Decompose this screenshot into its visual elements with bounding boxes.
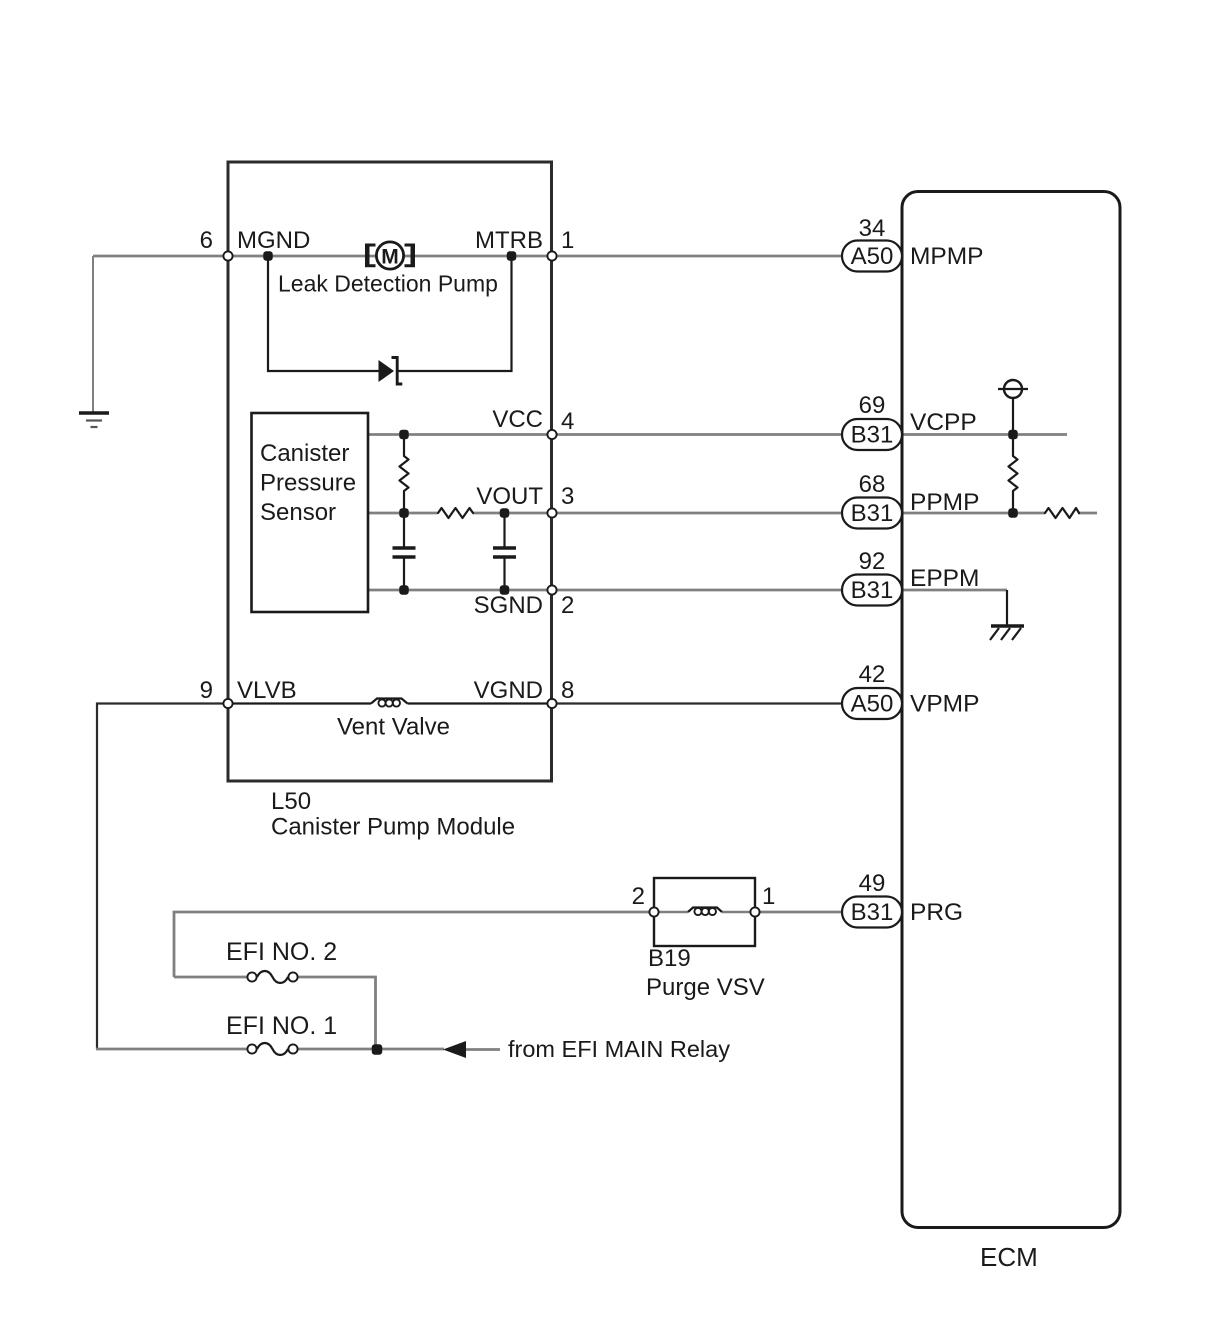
svg-text:92: 92 [859, 548, 886, 575]
connector B31 pin 92 oval [842, 575, 902, 606]
motor M (Leak Detection Pump) [365, 242, 415, 269]
svg-text:Canister: Canister [260, 440, 349, 467]
pin 9 VLVB [223, 699, 232, 708]
diode D (pump) triangle [379, 360, 395, 382]
resistor R (ECM pull-up vertical) [1009, 435, 1018, 514]
junction EFI NO.1/NO.2 [372, 1044, 383, 1055]
wire to EFI NO.1 fuse [96, 1048, 248, 1051]
junction VOUT/C2 [500, 508, 510, 518]
fuse EFI NO.2 [247, 971, 297, 983]
connector A50 pin 42 oval [842, 688, 902, 719]
svg-text:Sensor: Sensor [260, 499, 336, 526]
svg-text:8: 8 [561, 677, 574, 704]
svg-text:EFI NO. 2: EFI NO. 2 [226, 938, 337, 966]
svg-text:34: 34 [859, 215, 886, 242]
svg-text:1: 1 [762, 883, 775, 910]
wire EFI NO.2 branch to Purge VSV pin 2 [174, 912, 654, 977]
svg-text:EPPM: EPPM [910, 565, 979, 592]
junction SGND/C2 [500, 585, 510, 595]
wire VOUT to PPMP [368, 512, 1097, 515]
wire VGND to VPMP (dark) [552, 702, 902, 704]
chassis ground (EPPM) [990, 626, 1024, 640]
svg-text:VLVB: VLVB [237, 677, 297, 704]
svg-text:VCPP: VCPP [910, 409, 977, 436]
svg-text:M: M [381, 246, 399, 269]
module L50 box (Canister Pump Module) [228, 162, 552, 781]
svg-text:49: 49 [859, 870, 886, 897]
svg-text:MPMP: MPMP [910, 243, 984, 270]
svg-text:42: 42 [859, 661, 886, 688]
pin 2 purge VSV [649, 907, 658, 916]
svg-text:2: 2 [632, 883, 645, 910]
inductor L (purge VSV) [688, 908, 722, 916]
svg-text:69: 69 [859, 392, 886, 419]
wire vent valve internal [228, 702, 552, 704]
svg-text:Leak Detection Pump: Leak Detection Pump [278, 271, 498, 297]
junction PPMP/pull-up [1008, 508, 1018, 518]
svg-text:EFI NO. 1: EFI NO. 1 [226, 1012, 337, 1040]
junction SGND/C1 [399, 585, 409, 595]
svg-text:B31: B31 [851, 577, 894, 604]
resistor R (VOUT horizontal) [438, 508, 473, 518]
svg-text:VCC: VCC [492, 406, 543, 433]
wire EFI NO.1 fuse to arrow [297, 1048, 500, 1051]
svg-text:L50: L50 [271, 788, 311, 815]
svg-text:3: 3 [561, 483, 574, 510]
svg-text:2: 2 [561, 592, 574, 619]
pin 6 MGND [223, 251, 232, 260]
capacitor C1 (left) [393, 513, 416, 590]
inductor L (vent valve) [371, 699, 408, 707]
junction MGND [263, 251, 273, 261]
svg-text:B31: B31 [851, 899, 894, 926]
junction VCPP/pull-up [1008, 430, 1018, 440]
capacitor C2 (right) [493, 513, 516, 590]
junction VOUT/resistor [399, 508, 409, 518]
pin 3 VOUT [547, 508, 556, 517]
pin 2 SGND [547, 585, 556, 594]
junction VCC/resistor [399, 430, 409, 440]
svg-text:B31: B31 [851, 422, 894, 449]
svg-text:PPMP: PPMP [910, 489, 979, 516]
svg-text:MGND: MGND [237, 227, 310, 254]
arrow from EFI MAIN Relay [443, 1041, 466, 1058]
wire MGND-MTRB-A50 horizontal [93, 255, 902, 258]
connector B31 pin 69 oval [842, 419, 902, 450]
svg-text:A50: A50 [851, 691, 894, 718]
pull-up: theta terminal symbol [998, 380, 1028, 435]
svg-text:1: 1 [561, 227, 574, 254]
wire MGND left to ground drop [92, 256, 94, 412]
pin 1 purge VSV [750, 907, 759, 916]
wire Purge VSV internal [654, 911, 755, 913]
svg-text:VOUT: VOUT [476, 483, 543, 510]
connector A50 pin 34 oval [842, 241, 902, 272]
wire Purge VSV pin1 to B31 [755, 911, 902, 914]
pin 8 VGND [547, 699, 556, 708]
wire EPPM drop to chassis ground [1006, 590, 1008, 625]
svg-text:Pressure: Pressure [260, 470, 356, 497]
ECM box [902, 192, 1120, 1228]
purge VSV box B19 [654, 878, 755, 946]
svg-text:B31: B31 [851, 500, 894, 527]
svg-text:9: 9 [200, 677, 213, 704]
svg-text:MTRB: MTRB [475, 227, 543, 254]
pin 4 VCC [547, 430, 556, 439]
wire VLVB to left and down (dark) [97, 704, 228, 1050]
svg-text:ECM: ECM [980, 1242, 1038, 1272]
svg-text:Purge VSV: Purge VSV [646, 974, 765, 1001]
pin 1 MTRB [547, 251, 556, 260]
wire VCC to VCPP [368, 433, 1067, 436]
resistor R (sensor vertical) [400, 435, 409, 514]
svg-text:6: 6 [200, 227, 213, 254]
svg-text:SGND: SGND [474, 592, 543, 619]
svg-text:A50: A50 [851, 243, 894, 270]
connector B31 pin 49 oval [842, 897, 902, 928]
svg-text:Canister Pump Module: Canister Pump Module [271, 814, 515, 841]
svg-text:from EFI MAIN Relay: from EFI MAIN Relay [508, 1036, 730, 1062]
connector B31 pin 68 oval [842, 498, 902, 529]
wire EFI NO.2 fuse line [174, 977, 376, 1049]
diode D cathode curve [392, 358, 403, 385]
svg-text:PRG: PRG [910, 899, 963, 926]
resistor R (PPMP horizontal) [1045, 508, 1079, 518]
svg-text:B19: B19 [648, 945, 691, 972]
svg-text:Vent Valve: Vent Valve [337, 714, 450, 741]
svg-text:VPMP: VPMP [910, 691, 979, 718]
svg-text:4: 4 [561, 408, 574, 435]
canister pressure sensor box [252, 413, 369, 612]
wire pump loop with diode [268, 256, 512, 371]
svg-text:VGND: VGND [474, 677, 543, 704]
fuse EFI NO.1 [247, 1043, 297, 1055]
svg-text:68: 68 [859, 471, 886, 498]
wire SGND to EPPM [368, 589, 1007, 592]
junction MTRB [507, 251, 517, 261]
earth ground symbol (MGND) [79, 413, 109, 427]
